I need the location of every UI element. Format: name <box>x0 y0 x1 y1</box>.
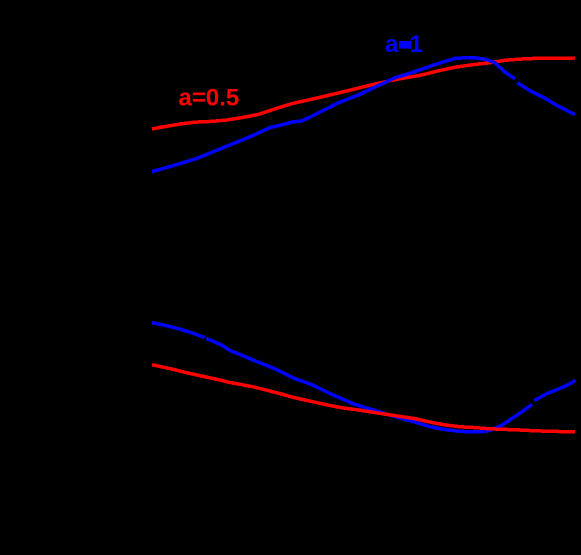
bottom red curve <box>152 365 575 432</box>
bottom blue curve segment 2 (after gap at ~205) <box>206 338 532 432</box>
bottom blue curve segment 1 <box>152 323 205 338</box>
top blue curve segment 2 (after small gap) <box>517 83 575 115</box>
bottom blue curve segment 3 (after gap at ~533) <box>534 380 575 400</box>
svg-text:a: a <box>385 31 399 58</box>
top blue curve (a=1, rising to peak then falling), segment 1 <box>152 58 515 172</box>
top red curve (a=0.5, rising) <box>152 58 575 129</box>
svg-text:a=0.5: a=0.5 <box>179 85 240 112</box>
svg-text:1: 1 <box>410 31 423 58</box>
